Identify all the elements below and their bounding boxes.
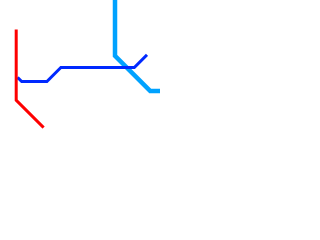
dark blue metro line (jog off red line, low horizontal, 45-degree rise, high horizontal, rise to end) — [18, 55, 147, 82]
light blue metro line (vertical from top edge, 45-degree diagonal down-right, stub to right edge) — [115, 0, 163, 91]
red metro line (vertical then 45-degree diagonal down-right) — [16, 30, 43, 128]
